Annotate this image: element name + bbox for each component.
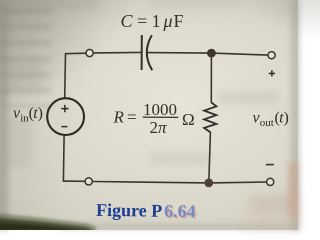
caption Figure P6.64 — [96, 200, 197, 223]
capacitor C1 right curved plate — [147, 35, 152, 70]
source minus sign — [62, 126, 68, 128]
wire top middle (circle to capacitor left plate) — [93, 51, 141, 54]
label vout — [253, 109, 289, 129]
svg-text:1000: 1000 — [143, 100, 177, 119]
wire capacitor right plate to top junction — [147, 52, 211, 55]
bleed-through smudges — [0, 8, 52, 108]
resistor R zigzag — [204, 102, 216, 132]
svg-text:=: = — [127, 108, 137, 127]
label plus output — [269, 70, 275, 76]
wire top-left horizontal (corner to open circle) — [66, 52, 87, 55]
wire top junction to right terminal — [211, 53, 268, 55]
wire bottom middle (circle to bottom junction) — [92, 182, 209, 183]
pink photo artifacts right side — [288, 162, 298, 218]
wire left vertical (corner to source top) — [64, 54, 67, 98]
terminal circle bottom-left wire — [85, 178, 92, 185]
junction dot top — [207, 49, 216, 58]
label vin — [13, 105, 43, 124]
svg-text:): ) — [284, 109, 289, 126]
svg-text:2: 2 — [150, 118, 159, 137]
svg-text:): ) — [38, 105, 43, 122]
label R value fraction — [113, 100, 195, 137]
terminal circle bottom-right — [267, 178, 274, 185]
junction dot bottom — [204, 179, 213, 188]
wire bottom-left horizontal (corner to open circle) — [63, 180, 85, 182]
svg-text:Figure P: Figure P — [96, 200, 162, 221]
wire resistor bottom lead — [209, 132, 211, 183]
svg-text:Ω: Ω — [182, 110, 195, 129]
source V1 circle — [47, 98, 84, 135]
terminal circle top-left wire — [86, 49, 93, 56]
svg-text:F: F — [174, 11, 184, 31]
svg-text:out: out — [260, 117, 274, 129]
svg-text:π: π — [158, 118, 167, 137]
source plus sign — [61, 105, 68, 112]
wire source bottom to bottom-left corner — [62, 135, 65, 181]
svg-text:μ: μ — [163, 11, 173, 31]
svg-text:= 1: = 1 — [137, 11, 161, 31]
svg-text:C: C — [121, 11, 134, 31]
capacitor C1 left plate — [141, 35, 143, 70]
wire bottom junction to right terminal — [209, 181, 267, 184]
label minus output — [266, 164, 274, 166]
svg-text:R: R — [113, 108, 125, 127]
svg-text:6.64: 6.64 — [164, 201, 196, 221]
label C value — [121, 11, 184, 31]
dark page-edge band bottom-left — [0, 213, 96, 232]
wire resistor top lead — [210, 53, 212, 102]
terminal circle top-right — [268, 52, 275, 59]
